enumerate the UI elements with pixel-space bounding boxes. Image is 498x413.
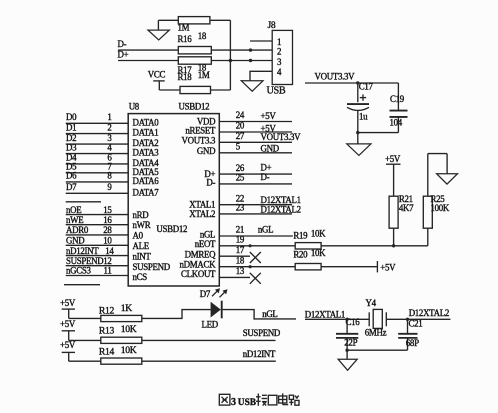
- svg-text:SUSPEND: SUSPEND: [66, 256, 104, 266]
- svg-text:9: 9: [107, 182, 112, 192]
- wire R18 to vertical bus: [211, 89, 231, 91]
- svg-text:nGCS3: nGCS3: [66, 266, 92, 276]
- svg-text:+5V: +5V: [261, 111, 277, 121]
- capacitor C17 1u: [347, 82, 374, 133]
- wire row2 to R13: [69, 339, 101, 341]
- wire pin 13 stub: [219, 266, 250, 277]
- wire pin 17 stub: [219, 245, 250, 256]
- node nGCS3 pin 11: [66, 266, 129, 276]
- resistor R20 10K: [293, 248, 326, 270]
- svg-text:2: 2: [107, 122, 111, 132]
- svg-text:104: 104: [390, 117, 403, 127]
- svg-text:R16: R16: [178, 34, 193, 44]
- node SUSPEND pin 12: [66, 256, 129, 266]
- power +5V row3: [60, 340, 76, 361]
- svg-text:nGL: nGL: [200, 229, 215, 239]
- node D2 pin 3: [66, 133, 129, 144]
- wire pin 18 to R20: [219, 255, 295, 268]
- svg-text:R19: R19: [293, 230, 308, 240]
- node D4 pin 6: [66, 153, 129, 164]
- wire R17 to J8 pin3: [211, 60, 272, 62]
- node D+ pin 26: [219, 162, 292, 174]
- wire C17 C19 bottoms: [358, 132, 399, 134]
- svg-text:68P: 68P: [406, 338, 419, 348]
- svg-text:DATA7: DATA7: [133, 187, 160, 197]
- svg-text:GND: GND: [66, 236, 85, 246]
- svg-text:C19: C19: [390, 94, 405, 104]
- svg-text:+5V: +5V: [380, 262, 396, 272]
- wire J8 pin1 stub: [250, 40, 272, 42]
- svg-text:DATA2: DATA2: [133, 138, 159, 148]
- power +5V above R21: [385, 154, 401, 196]
- svg-text:nDMACK: nDMACK: [180, 259, 217, 269]
- svg-text:23: 23: [236, 203, 245, 213]
- wire VCC to R18: [159, 89, 180, 91]
- svg-text:ADR0: ADR0: [66, 225, 89, 235]
- svg-text:SUSPEND: SUSPEND: [133, 262, 171, 272]
- svg-text:R14: R14: [99, 347, 115, 358]
- svg-text:18: 18: [198, 31, 207, 41]
- svg-text:16: 16: [103, 215, 112, 225]
- node +5V pin 24: [219, 110, 292, 121]
- no-connect X pin 17: [250, 252, 261, 263]
- svg-text:D3: D3: [66, 142, 77, 152]
- wire R25 top jog: [428, 153, 447, 155]
- resistor R13 10K: [99, 324, 142, 344]
- svg-text:1M: 1M: [178, 22, 190, 32]
- svg-text:D7: D7: [200, 289, 211, 299]
- svg-text:6MHz: 6MHz: [365, 328, 387, 338]
- wire D- left: [118, 49, 178, 51]
- wire J8 pin4 to ground: [250, 71, 272, 81]
- svg-text:Y4: Y4: [366, 298, 377, 308]
- svg-text:26: 26: [236, 163, 245, 173]
- svg-text:USBD12: USBD12: [156, 224, 187, 234]
- svg-text:100K: 100K: [431, 203, 450, 213]
- node ADR0 pin 28: [66, 225, 129, 235]
- svg-text:LED: LED: [202, 320, 219, 330]
- node junction pin2 row: [249, 48, 252, 51]
- node VOUT3.3V pin 27: [219, 131, 301, 142]
- capacitor C21 68P: [398, 318, 422, 350]
- svg-text:27: 27: [236, 131, 245, 141]
- wire pin 19 to R19: [219, 235, 295, 248]
- pin names inside right: [180, 117, 217, 280]
- svg-text:10K: 10K: [311, 228, 326, 238]
- resistor R21 4K7: [389, 194, 414, 246]
- wire R16 to J8 pin2: [211, 49, 272, 51]
- svg-text:10K: 10K: [121, 324, 137, 335]
- svg-text:SUSPEND: SUSPEND: [243, 328, 281, 338]
- node junction C16 top: [345, 318, 348, 321]
- svg-text:+5V: +5V: [60, 298, 76, 308]
- node junction D+ crossing: [229, 59, 232, 62]
- node D1 pin 2: [66, 122, 129, 133]
- svg-text:nCS: nCS: [133, 272, 148, 282]
- caption 图3 USB接口电路: [219, 394, 230, 405]
- svg-text:CLKOUT: CLKOUT: [181, 269, 216, 279]
- wire VOUT3.3V rail: [305, 82, 398, 84]
- svg-text:R18: R18: [178, 72, 193, 82]
- node D0 pin 1: [66, 112, 129, 123]
- resistor R12 1K: [99, 303, 142, 322]
- node nGL pin 21: [219, 224, 293, 236]
- svg-text:VOUT3.3V: VOUT3.3V: [315, 72, 356, 82]
- resistor R19 10K: [293, 228, 326, 249]
- svg-text:nGL: nGL: [262, 309, 277, 319]
- svg-text:28: 28: [103, 225, 112, 235]
- svg-text:24: 24: [236, 110, 245, 120]
- svg-text:10K: 10K: [121, 345, 137, 356]
- node junction C17 top: [356, 81, 359, 84]
- svg-text:A0: A0: [133, 231, 144, 241]
- svg-text:1: 1: [107, 112, 111, 122]
- svg-text:D-: D-: [261, 172, 270, 182]
- svg-text:DMREQ: DMREQ: [185, 249, 216, 259]
- svg-text:D2: D2: [66, 133, 76, 143]
- wire crystal to D12XTAL2: [386, 318, 450, 320]
- svg-text:D12XTAL1: D12XTAL1: [305, 310, 345, 320]
- resistor R14 10K: [99, 345, 142, 364]
- svg-text:1u: 1u: [359, 112, 368, 122]
- ground GND2 at J8: [241, 81, 263, 91]
- node D12XTAL1 pin 22: [219, 193, 300, 205]
- node D7 pin 9: [66, 182, 129, 193]
- wire R13 to SUSPEND: [142, 339, 276, 341]
- resistor R16 18: [178, 31, 212, 54]
- svg-text:21: 21: [236, 225, 244, 235]
- svg-text:15: 15: [103, 205, 112, 215]
- svg-text:nWR: nWR: [133, 220, 151, 230]
- power +5V right of R20: [377, 261, 396, 272]
- svg-text:USB: USB: [267, 86, 286, 97]
- svg-text:XTAL2: XTAL2: [189, 209, 215, 219]
- node D5 pin 7: [66, 162, 129, 173]
- svg-text:nRESET: nRESET: [185, 126, 216, 136]
- svg-text:nEOT: nEOT: [195, 239, 216, 249]
- svg-text:D1: D1: [66, 122, 76, 132]
- svg-text:4K7: 4K7: [399, 203, 414, 213]
- svg-text:1: 1: [277, 37, 281, 47]
- svg-text:ALE: ALE: [133, 241, 149, 251]
- svg-text:D12XTAL2: D12XTAL2: [409, 308, 449, 318]
- svg-text:GND: GND: [197, 146, 216, 156]
- node D3 pin 4: [66, 142, 129, 153]
- svg-text:+5V: +5V: [60, 319, 76, 329]
- resistor R25 100K: [423, 154, 450, 246]
- ground GND5 crystal: [338, 350, 357, 370]
- svg-text:D-: D-: [118, 39, 127, 49]
- svg-text:DATA1: DATA1: [133, 128, 159, 138]
- svg-text:3: 3: [107, 133, 112, 143]
- svg-text:nD12INT: nD12INT: [243, 349, 276, 359]
- svg-text:C17: C17: [359, 82, 374, 92]
- ground GND3 below C17: [347, 133, 371, 156]
- node D12XTAL2 pin 23: [219, 203, 300, 215]
- svg-text:D+: D+: [118, 50, 129, 60]
- svg-text:11: 11: [104, 266, 112, 276]
- wire R19 to R21 R25 junction: [321, 245, 428, 247]
- svg-text:22P: 22P: [344, 337, 357, 347]
- capacitor C19 104: [390, 83, 408, 133]
- capacitor C16 22P: [336, 317, 360, 350]
- svg-text:17: 17: [236, 245, 245, 255]
- power VCC: [148, 70, 166, 91]
- pin names inside left: [133, 117, 188, 282]
- svg-text:USB: USB: [238, 398, 256, 408]
- wire LED to nGL: [223, 310, 296, 319]
- resistor R17 18: [178, 57, 212, 75]
- wire crystal cap rail: [347, 349, 407, 351]
- resistor R18 1M: [178, 70, 211, 93]
- svg-text:3: 3: [277, 57, 282, 67]
- op-amp U8 USBD12 IC body: [128, 101, 219, 286]
- svg-text:USBD12: USBD12: [179, 101, 210, 111]
- svg-text:+5V: +5V: [385, 154, 401, 164]
- svg-text:19: 19: [236, 235, 245, 245]
- svg-text:nD12INT: nD12INT: [66, 246, 99, 256]
- svg-text:DATA0: DATA0: [133, 117, 160, 127]
- wire ground to 1M resistor: [158, 19, 178, 21]
- svg-text:DATA6: DATA6: [133, 176, 160, 186]
- svg-text:nRD: nRD: [133, 210, 150, 220]
- svg-text:D-: D-: [206, 178, 215, 188]
- svg-text:GND: GND: [261, 143, 280, 153]
- svg-text:D12XTAL2: D12XTAL2: [261, 204, 301, 214]
- node junction C21 top: [406, 318, 409, 321]
- svg-text:3: 3: [231, 397, 236, 408]
- svg-text:nOE: nOE: [66, 205, 81, 215]
- svg-text:13: 13: [236, 266, 245, 276]
- wire stub below nGCS3: [64, 284, 100, 286]
- wire R14 to nD12INT: [142, 360, 276, 362]
- wire D+ left: [118, 60, 178, 62]
- svg-text:+5V: +5V: [60, 340, 76, 350]
- ground GND4 top right: [437, 154, 458, 185]
- svg-text:1M: 1M: [198, 70, 210, 80]
- svg-text:10: 10: [103, 236, 112, 246]
- svg-text:nINT: nINT: [133, 251, 152, 261]
- power +5V row1: [60, 298, 76, 318]
- node junction pin3 row: [249, 59, 252, 62]
- svg-text:D0: D0: [66, 112, 77, 122]
- node nD12INT pin 14: [66, 246, 129, 256]
- LED D7: [200, 288, 228, 329]
- node junction R21 bottom: [392, 244, 395, 247]
- svg-text:R20: R20: [293, 250, 308, 260]
- svg-text:nGL: nGL: [258, 224, 273, 234]
- no-connect X pin 13: [250, 273, 261, 284]
- svg-text:2: 2: [277, 47, 281, 57]
- svg-text:12: 12: [103, 256, 111, 266]
- ground GND1 top-left: [148, 20, 169, 40]
- svg-text:4: 4: [277, 67, 282, 77]
- svg-text:R13: R13: [99, 326, 115, 337]
- svg-text:VOUT3.3: VOUT3.3: [182, 135, 217, 145]
- wire row1 to R12: [69, 317, 101, 319]
- wire D12XTAL1 to crystal: [305, 318, 369, 320]
- svg-text:5: 5: [236, 142, 241, 152]
- svg-text:DATA3: DATA3: [133, 148, 160, 158]
- svg-text:D7: D7: [66, 182, 77, 192]
- node D6 pin 8: [66, 171, 129, 182]
- wire row3 to R14: [69, 360, 101, 362]
- wire vertical bus: [229, 20, 231, 90]
- node nOE pin 15: [66, 205, 129, 215]
- node junction C17 bottom: [356, 131, 359, 134]
- node GND pin 5: [219, 142, 292, 154]
- svg-text:nWE: nWE: [66, 215, 83, 225]
- svg-text:20: 20: [236, 121, 245, 131]
- svg-text:C21: C21: [409, 318, 423, 328]
- wire R20 to +5V: [321, 266, 377, 268]
- node +5V pin 20: [219, 121, 292, 134]
- node GND pin 10: [66, 236, 129, 246]
- svg-text:25: 25: [236, 173, 245, 183]
- wire 1M right to vertical bus: [210, 19, 231, 21]
- resistor 1M top: [178, 17, 210, 33]
- wire stub below D7: [66, 201, 101, 203]
- crystal Y4 6MHz: [365, 298, 387, 337]
- node junction rail: [345, 349, 348, 352]
- power +5V row2: [60, 319, 76, 340]
- svg-text:1K: 1K: [121, 303, 132, 314]
- svg-text:10K: 10K: [311, 248, 326, 258]
- svg-text:D6: D6: [66, 171, 77, 181]
- svg-text:18: 18: [236, 255, 245, 265]
- svg-text:VCC: VCC: [148, 70, 166, 80]
- node D- pin 25: [219, 172, 292, 184]
- svg-text:U8: U8: [129, 102, 140, 112]
- connector J8 USB: [267, 20, 293, 97]
- svg-text:D+: D+: [261, 162, 272, 172]
- svg-text:J8: J8: [268, 20, 276, 31]
- node nWE pin 16: [66, 215, 129, 225]
- svg-text:XTAL1: XTAL1: [189, 199, 215, 209]
- svg-text:14: 14: [105, 246, 114, 256]
- svg-text:VOUT3.3V: VOUT3.3V: [261, 132, 302, 142]
- wire R12 to LED: [142, 310, 211, 319]
